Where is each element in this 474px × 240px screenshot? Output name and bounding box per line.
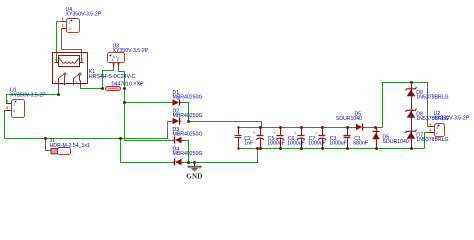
svg-text:680nF: 680nF: [353, 140, 368, 146]
svg-text:1000uF: 1000uF: [287, 140, 305, 146]
svg-text:v1: v1: [62, 82, 66, 86]
svg-text:MBR40250G: MBR40250G: [173, 95, 203, 101]
svg-text:5: 5: [81, 58, 83, 62]
svg-text:MBR40250G: MBR40250G: [173, 151, 203, 157]
svg-text:7: 7: [55, 81, 57, 85]
svg-text:1000uF: 1000uF: [267, 140, 285, 146]
svg-text:MBR40250G: MBR40250G: [173, 132, 203, 138]
svg-text:N Fu: N Fu: [113, 55, 120, 59]
svg-text:XY350V-3.5-2P: XY350V-3.5-2P: [66, 12, 102, 18]
svg-text:0447010.YXP: 0447010.YXP: [112, 81, 145, 87]
svg-text:XY350V-3.5-2P: XY350V-3.5-2P: [434, 116, 470, 122]
svg-text:HRS4H-S-DC24V-C: HRS4H-S-DC24V-C: [89, 74, 136, 80]
svg-text:1N5378BRLG: 1N5378BRLG: [416, 137, 448, 143]
svg-text:MBR40250G: MBR40250G: [173, 113, 203, 119]
svg-text:1000uF: 1000uF: [329, 140, 347, 146]
svg-text:HDR-M-2.54_1x1: HDR-M-2.54_1x1: [50, 143, 90, 149]
svg-text:XY350V-3.5-2P: XY350V-3.5-2P: [10, 92, 46, 98]
svg-text:1N5378BRLG: 1N5378BRLG: [416, 95, 448, 101]
svg-text:GND: GND: [186, 172, 202, 180]
svg-text:9: 9: [76, 81, 78, 85]
svg-text:1000uF: 1000uF: [308, 140, 326, 146]
svg-text:XY350V-3.5-2P: XY350V-3.5-2P: [113, 48, 149, 54]
svg-text:4: 4: [55, 58, 57, 62]
svg-text:SDUR1040: SDUR1040: [383, 139, 409, 145]
svg-text:SDUR1040: SDUR1040: [336, 116, 362, 122]
svg-text:1nF: 1nF: [244, 140, 253, 146]
